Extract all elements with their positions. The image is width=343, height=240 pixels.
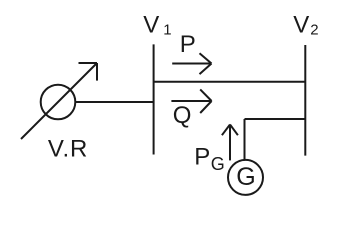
svg-text:V: V — [143, 11, 159, 38]
svg-text:2: 2 — [310, 21, 318, 38]
svg-text:P: P — [180, 31, 196, 58]
svg-text:V.R: V.R — [48, 136, 88, 163]
svg-text:G: G — [236, 163, 255, 191]
svg-text:V: V — [293, 11, 309, 38]
svg-text:P: P — [194, 144, 210, 171]
svg-text:Q: Q — [173, 102, 192, 129]
svg-text:G: G — [211, 154, 225, 174]
svg-text:1: 1 — [163, 21, 171, 38]
